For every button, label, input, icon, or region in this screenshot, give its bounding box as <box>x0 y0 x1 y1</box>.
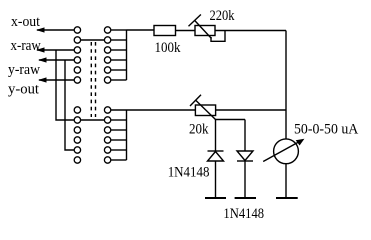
svg-text:220k: 220k <box>210 8 235 24</box>
arrowhead y-raw <box>38 57 47 62</box>
contact circle <box>74 147 80 153</box>
wire: lower switch pole bridge row 2 <box>81 119 105 121</box>
wire: 100k to 220k <box>176 30 196 32</box>
trimmer R2 220k shaft <box>195 20 212 38</box>
contact circle <box>74 47 80 53</box>
wire: upper switch pole bridge row 2 <box>81 39 105 41</box>
wire: 220k output to right vertical <box>215 30 286 32</box>
arrowhead y-out <box>38 77 47 82</box>
arrowhead x-raw <box>36 47 45 52</box>
trimmer R3 20k shaft <box>196 100 216 119</box>
wire: meter to ground <box>285 164 287 198</box>
contact circle <box>104 117 110 123</box>
contact circle <box>104 57 110 63</box>
contact circle lower left column <box>74 107 80 113</box>
wire: lower bus vertical <box>126 110 128 160</box>
trimmer R3 20k T-bar <box>190 95 201 106</box>
wire: x-out arrow line <box>37 29 74 31</box>
wire: diode D1 branch lower <box>215 161 217 198</box>
wire: diode D2 branch lower <box>244 161 246 198</box>
svg-text:x-out: x-out <box>11 14 41 30</box>
ground under D1 <box>205 197 226 199</box>
arrowhead meter <box>296 139 305 146</box>
meter M1 body <box>274 139 299 164</box>
contact circle <box>74 157 80 163</box>
wire: right vertical down to meter <box>285 31 287 140</box>
svg-text:y-out: y-out <box>8 82 40 98</box>
svg-text:x-raw: x-raw <box>11 38 41 54</box>
svg-text:20k: 20k <box>189 122 209 138</box>
contact circle <box>74 27 80 33</box>
wire: upper right stubs to bus <box>111 29 127 31</box>
contact circle <box>104 137 110 143</box>
ground under D2 <box>235 197 256 199</box>
contact circle <box>104 127 110 133</box>
wire: vertical branch B from y-raw line down to lower switch row 5 <box>65 60 74 150</box>
switch S1a mechanical link (dashed) <box>90 42 92 117</box>
contact circle <box>104 47 110 53</box>
meter M1 arrow <box>263 141 300 161</box>
diode D1 1N4148 cathode bar <box>208 150 224 152</box>
trimmer R2 220k wiper loop <box>211 31 225 42</box>
contact circle <box>104 67 110 73</box>
svg-text:50-0-50 uA: 50-0-50 uA <box>294 122 358 138</box>
contact circle <box>104 147 110 153</box>
wire: lower right stubs to bus <box>111 119 127 121</box>
ground under meter <box>276 197 298 199</box>
diode D2 1N4148 cathode bar <box>237 160 253 162</box>
contact circle <box>104 37 110 43</box>
wire: row1 to 100k resistor <box>127 29 155 31</box>
arrowhead x-out <box>36 27 45 32</box>
wire: diode D1 branch upper <box>215 120 217 152</box>
trimmer R3 20k body <box>195 105 215 116</box>
contact circle <box>74 137 80 143</box>
wire: diode D2 branch upper <box>244 120 246 152</box>
resistor R1 100k body <box>154 26 176 36</box>
contact circle <box>74 117 80 123</box>
trimmer R2 220k body <box>195 26 215 36</box>
svg-text:y-raw: y-raw <box>8 62 40 78</box>
wire: y-out arrow line <box>39 79 74 81</box>
wire: wiper rail over diodes <box>216 119 246 121</box>
wire: 20k output to right vertical <box>216 109 286 111</box>
diode D1 1N4148 triangle (pointing up) <box>208 152 224 162</box>
contact circle <box>104 157 110 163</box>
switch contacts: upper group left column <box>74 27 111 163</box>
trimmer R2 220k T-bar <box>189 15 201 27</box>
svg-text:1N4148: 1N4148 <box>168 165 210 181</box>
contact circle <box>74 77 80 83</box>
diode D2 1N4148 triangle (pointing down) <box>237 151 253 161</box>
contact circle <box>74 37 80 43</box>
contact circle lower right column <box>104 107 110 113</box>
svg-text:100k: 100k <box>155 40 181 56</box>
wire: upper bus vertical <box>126 30 128 80</box>
wire: lower switch row1 to 20k <box>111 109 196 111</box>
contact circle <box>104 77 110 83</box>
contact circle upper right column <box>104 27 110 33</box>
wire: vertical branch A from x-raw line down to lower switch row 2 <box>56 50 74 120</box>
contact circle <box>74 67 80 73</box>
wire: x-raw arrow line with branch <box>37 49 74 51</box>
wire: y-raw arrow line <box>39 59 74 61</box>
contact circle <box>74 127 80 133</box>
svg-text:1N4148: 1N4148 <box>223 206 264 222</box>
contact circle <box>74 57 80 63</box>
